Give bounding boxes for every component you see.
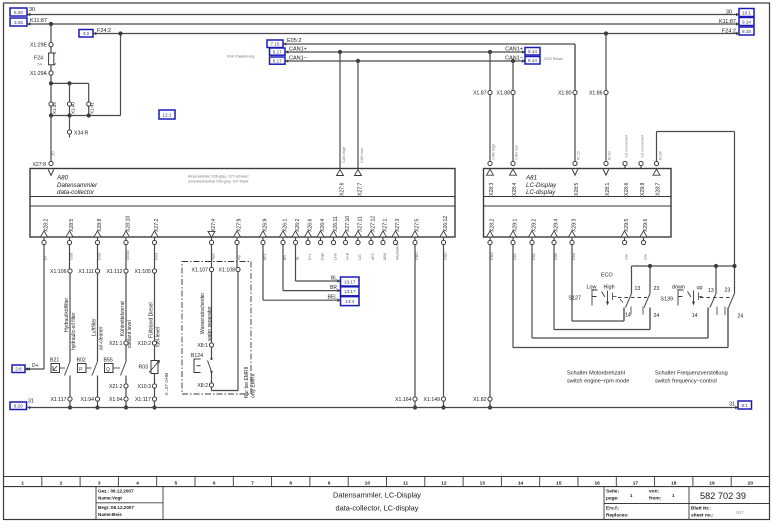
- svg-text:D+: D+: [44, 255, 48, 260]
- svg-text:B21: B21: [50, 358, 59, 364]
- svg-text:12:1: 12:1: [163, 112, 172, 117]
- svg-text:Q: Q: [106, 367, 110, 373]
- svg-text:3:26: 3:26: [14, 20, 23, 25]
- svg-text:0...67 OHM: 0...67 OHM: [164, 372, 169, 395]
- svg-text:1: 1: [21, 480, 24, 486]
- sheet ref 8.15 (F24:2 right): [736, 27, 754, 35]
- wire water separator: [200, 272, 213, 343]
- svg-text:Schalter Motordrehzahl: Schalter Motordrehzahl: [567, 371, 625, 377]
- svg-text:X1.111: X1.111: [78, 269, 94, 275]
- svg-text:X28:8: X28:8: [97, 219, 103, 232]
- svg-text:X27:4: X27:4: [211, 219, 217, 232]
- svg-text:6:20: 6:20: [14, 10, 23, 15]
- svg-text:X26:4: X26:4: [320, 219, 326, 232]
- svg-text:X26:9: X26:9: [263, 219, 269, 232]
- svg-text:D8H: D8H: [554, 252, 558, 260]
- floating sheet ref 12:1: [159, 110, 175, 119]
- svg-text:8: 8: [289, 480, 292, 486]
- A80 pin X26:1: [280, 219, 289, 260]
- A80 pin X26:6: [305, 219, 314, 260]
- sheet ref 6.17 (CAN1+ left): [270, 48, 289, 55]
- svg-text:BR: BR: [283, 255, 287, 260]
- svg-text:Name:Vogt: Name:Vogt: [98, 496, 122, 501]
- svg-text:X1.87: X1.87: [473, 91, 487, 97]
- svg-text:13: 13: [708, 288, 714, 294]
- A80 pin X26:9: [260, 219, 269, 260]
- A81 pin X28:2: [487, 219, 496, 260]
- svg-text:X28:5: X28:5: [574, 183, 580, 196]
- svg-text:D+: D+: [32, 363, 39, 369]
- svg-text:13:17: 13:17: [344, 279, 356, 284]
- pin X28:6 not connected: [623, 135, 630, 196]
- svg-text:9.14: 9.14: [528, 58, 537, 63]
- svg-text:von:: von:: [649, 490, 660, 495]
- wire X28:10 branch (coolant level): [120, 245, 133, 348]
- svg-text:8.15: 8.15: [742, 29, 751, 34]
- svg-text:007: 007: [736, 510, 744, 515]
- svg-text:Replaces:: Replaces:: [606, 513, 629, 519]
- svg-text:X1:94: X1:94: [80, 397, 94, 403]
- svg-text:X27:9: X27:9: [237, 219, 243, 232]
- svg-text:sheet no.:: sheet no.:: [691, 513, 714, 519]
- svg-text:CAN1+: CAN1+: [505, 47, 523, 53]
- svg-text:up: up: [697, 285, 703, 291]
- svg-text:14: 14: [692, 313, 698, 319]
- svg-text:data-collector, LC-display: data-collector, LC-display: [336, 504, 419, 513]
- svg-text:Wasserabscheider: Wasserabscheider: [200, 292, 206, 334]
- svg-text:X1:112: X1:112: [106, 269, 122, 275]
- fuse F24 5A: [34, 47, 56, 71]
- svg-text:Begr.:06.12.2007: Begr.:06.12.2007: [98, 505, 134, 510]
- A80 pin X28:5: [66, 219, 75, 260]
- A80 pin X27:2: [151, 219, 160, 260]
- svg-text:6: 6: [213, 480, 216, 486]
- svg-text:CAN1+: CAN1+: [289, 47, 307, 53]
- svg-text:23: 23: [654, 286, 660, 292]
- svg-text:BEL: BEL: [263, 253, 267, 260]
- svg-text:B55: B55: [104, 358, 113, 364]
- svg-text:F24: F24: [34, 56, 43, 62]
- connector X1:94 (air cleaner): [80, 397, 99, 410]
- svg-text:Blatt Nr.:: Blatt Nr.:: [691, 506, 711, 512]
- pin X28:1 top (arrow in): [603, 161, 611, 196]
- svg-text:AB8: AB8: [383, 253, 387, 260]
- svg-text:F24:2: F24:2: [722, 28, 736, 34]
- svg-text:High: High: [604, 285, 615, 291]
- svg-text:K11:87: K11:87: [719, 19, 736, 25]
- svg-text:X27:1: X27:1: [383, 219, 389, 232]
- A81 pin X29:3: [569, 219, 578, 260]
- A80 pin X27:1: [380, 219, 389, 260]
- svg-text:CAN high: CAN high: [342, 147, 346, 163]
- connector X1:29E: [30, 43, 53, 49]
- svg-text:X10:2: X10:2: [137, 341, 151, 347]
- connector X1.88: [496, 90, 515, 96]
- connector X21:1: [109, 341, 128, 362]
- svg-text:15: 15: [556, 480, 562, 486]
- connector X1:29A: [30, 71, 53, 77]
- wire X28:8 branch (air cleaner): [97, 245, 99, 269]
- wire X26:12 to X1.149: [443, 245, 445, 397]
- svg-text:17: 17: [633, 480, 639, 486]
- svg-text:12: 12: [441, 480, 447, 486]
- svg-text:ECO: ECO: [601, 273, 613, 279]
- svg-text:31: 31: [729, 401, 735, 407]
- svg-text:X27:5: X27:5: [415, 219, 421, 232]
- svg-text:X28:6: X28:6: [624, 183, 630, 196]
- svg-text:switch engine−rpm mode: switch engine−rpm mode: [567, 379, 629, 385]
- svg-text:X27:12: X27:12: [371, 216, 377, 232]
- svg-text:BL: BL: [331, 275, 337, 281]
- svg-text:13: 13: [635, 286, 641, 292]
- svg-text:X1:80: X1:80: [558, 91, 572, 97]
- sheet ref 6:20 (31 left): [10, 402, 30, 410]
- vacuum switch B02: [77, 358, 98, 376]
- sheet ref 7.16 (E05:2 left): [267, 40, 286, 48]
- svg-text:K11:87: K11:87: [30, 18, 47, 24]
- connector X1:117: [50, 397, 72, 410]
- svg-text:6A2A6A40: 6A2A6A40: [396, 243, 400, 260]
- svg-text:23e: 23e: [644, 254, 648, 260]
- connector X1.164: [395, 397, 417, 410]
- svg-text:20: 20: [748, 480, 754, 486]
- svg-text:6.17: 6.17: [273, 49, 282, 54]
- caption switch frequency-control: [655, 371, 728, 385]
- svg-text:4: 4: [136, 480, 139, 486]
- connector X1.82: [473, 397, 492, 410]
- wire X29:1 to S139 contact 24: [513, 245, 728, 348]
- switch supply bus: [632, 264, 737, 268]
- svg-text:LIG: LIG: [358, 254, 362, 260]
- svg-text:Kühlmittelvorrat: Kühlmittelvorrat: [120, 301, 126, 336]
- svg-text:LH8: LH8: [334, 253, 338, 260]
- svg-text:X29:2: X29:2: [532, 219, 538, 232]
- A80 pin X27:12: [368, 216, 377, 260]
- svg-text:not connected: not connected: [640, 135, 644, 158]
- sheet ref 13:17 (BL): [337, 277, 359, 286]
- wire CAN high into A80 X27:6: [337, 52, 346, 196]
- svg-text:X21:2: X21:2: [109, 384, 123, 390]
- S139 contact 13-14: [692, 266, 725, 338]
- wire Kl.30 to X1:86: [604, 31, 608, 90]
- svg-text:X21:1: X21:1: [109, 341, 123, 347]
- svg-text:Kl.30: Kl.30: [608, 151, 612, 160]
- connector pin X28:4 top: [510, 161, 519, 196]
- sheet ref 13:17 (BR): [337, 287, 359, 296]
- connector pin X28:3 top: [487, 161, 496, 196]
- S127 contact 23-24: [644, 266, 659, 330]
- svg-text:13: 13: [480, 480, 486, 486]
- svg-text:24: 24: [654, 313, 660, 319]
- svg-text:X29:6: X29:6: [643, 219, 649, 232]
- svg-text:X28:5: X28:5: [69, 219, 75, 232]
- wire X29:2 to S139 contact 14: [532, 245, 708, 338]
- svg-text:page:: page:: [606, 497, 619, 502]
- sheet ref 10.1 (wire 30 right): [736, 9, 754, 17]
- svg-text:X27:2: X27:2: [154, 219, 160, 232]
- connector X1:112: [106, 269, 128, 275]
- switch S127 engine rpm mode: [568, 273, 647, 306]
- connector X1:117 (fuel): [135, 397, 157, 410]
- sheet ref 13:4 (BEL): [337, 297, 359, 306]
- svg-text:X29:5: X29:5: [624, 219, 630, 232]
- svg-text:S139: S139: [660, 297, 673, 303]
- pressure switch B21: [50, 358, 70, 376]
- svg-text:AFC: AFC: [371, 252, 375, 260]
- svg-text:DqH: DqH: [321, 252, 325, 260]
- wire X28:2 to X1.82: [489, 245, 491, 397]
- svg-text:BL: BL: [296, 256, 300, 260]
- svg-text:13:4: 13:4: [345, 299, 354, 304]
- svg-text:GND: GND: [415, 252, 419, 260]
- sheet ref 9.14 (CAN1+ right): [522, 48, 540, 56]
- svg-text:6.17: 6.17: [273, 58, 282, 63]
- svg-text:DG6: DG6: [70, 253, 74, 260]
- svg-text:D84: D84: [513, 253, 517, 260]
- svg-text:9.14: 9.14: [528, 49, 537, 54]
- svg-text:LC-Display: LC-Display: [526, 182, 557, 189]
- wire BL from X26:2: [296, 245, 341, 282]
- connector X21:2: [109, 376, 128, 397]
- svg-text:5A: 5A: [37, 63, 42, 67]
- svg-text:Füllstand Diesel: Füllstand Diesel: [149, 302, 155, 338]
- svg-text:D+1: D+1: [308, 253, 312, 260]
- A80 pin X26:12: [440, 216, 449, 260]
- svg-text:X1:105: X1:105: [135, 269, 152, 275]
- svg-text:Name:Beis: Name:Beis: [98, 512, 122, 517]
- svg-text:X26:6: X26:6: [308, 219, 314, 232]
- svg-text:D8d: D8d: [572, 253, 576, 260]
- svg-text:X27:6: X27:6: [339, 183, 345, 196]
- sheet ref 3:26 (K11:87 left): [10, 18, 30, 26]
- svg-text:D82: D82: [532, 253, 536, 260]
- wire X27:2 branch (fuel level): [149, 245, 162, 347]
- svg-text:water separator: water separator: [207, 306, 213, 341]
- A80 pin X26:2: [292, 219, 301, 260]
- svg-text:Seite:: Seite:: [606, 489, 619, 495]
- svg-text:16: 16: [594, 480, 600, 486]
- wire X27:9 to X1:108: [236, 245, 238, 268]
- svg-text:Nur bei EMRII: Nur bei EMRII: [244, 367, 250, 398]
- svg-text:CAN low: CAN low: [515, 145, 519, 160]
- svg-text:X27:3: X27:3: [395, 219, 401, 232]
- A80 pin X27:4: [208, 219, 217, 260]
- svg-text:BEL: BEL: [328, 295, 338, 301]
- svg-text:X1.82: X1.82: [473, 397, 487, 403]
- caption switch engine-rpm mode: [567, 371, 629, 385]
- svg-text:DG1: DG1: [155, 253, 159, 260]
- svg-text:X8:1: X8:1: [197, 343, 208, 349]
- svg-text:X1:86: X1:86: [589, 91, 603, 97]
- connector X1.87: [473, 90, 492, 96]
- wire E05:2: [284, 38, 576, 90]
- wire 30 (battery+) top rail: [28, 7, 740, 16]
- svg-text:CAN1−: CAN1−: [289, 56, 307, 62]
- level switch B55: [104, 358, 127, 376]
- connector X1:107: [192, 267, 214, 273]
- wire rejoin to F24:2 net: [49, 31, 123, 117]
- wire X29:3 to S127 contact 14: [572, 245, 624, 321]
- connector X27:8: [32, 161, 53, 175]
- svg-text:B02: B02: [77, 358, 86, 364]
- sheet ref 6:20 (wire 30 left): [10, 8, 30, 16]
- svg-text:X1:39: X1:39: [52, 102, 57, 114]
- svg-text:X29:4: X29:4: [554, 219, 560, 232]
- sheet ref 8:1 (31 right): [735, 401, 751, 409]
- sheet ref 4:2 (F24:2 left): [79, 30, 96, 38]
- connector X1:108: [219, 267, 241, 390]
- svg-text:S127: S127: [568, 296, 581, 302]
- A80 pin X27:5: [412, 219, 421, 260]
- S127 contact 13-14: [624, 266, 643, 321]
- variable resistor R03 0..67 OHM: [138, 361, 169, 396]
- svg-text:X29:1: X29:1: [513, 219, 519, 232]
- svg-text:X28:10: X28:10: [126, 216, 132, 232]
- wire CAN1- rail: [286, 56, 526, 64]
- connector X1:39: [49, 102, 57, 114]
- sheet ref 2:8 (D+): [12, 365, 30, 373]
- ECU A80 Datensammler data-collector: [30, 169, 455, 238]
- svg-text:F24:2: F24:2: [97, 28, 111, 34]
- svg-text:X27:10: X27:10: [345, 216, 351, 232]
- svg-text:E05:2: E05:2: [287, 38, 301, 44]
- svg-text:Ers.f.:: Ers.f.:: [606, 506, 620, 512]
- svg-text:A81: A81: [525, 175, 537, 182]
- svg-text:X1:117: X1:117: [135, 397, 151, 403]
- svg-text:582 702 39: 582 702 39: [700, 491, 746, 501]
- A81 pin X29:2: [529, 219, 538, 260]
- svg-text:X28:1: X28:1: [605, 183, 611, 196]
- connector X10:2: [137, 341, 156, 361]
- A80 pin X27:10: [342, 216, 351, 260]
- svg-text:LC-display: LC-display: [526, 189, 556, 196]
- svg-text:U+B: U+B: [346, 252, 350, 260]
- wire X27:5 to X1.164: [414, 245, 416, 397]
- svg-text:14: 14: [625, 313, 631, 319]
- svg-text:switch frequency−control: switch frequency−control: [655, 379, 717, 385]
- svg-text:X28:2: X28:2: [44, 219, 50, 232]
- wire D+ from X28:2 to ref 2:8: [28, 245, 45, 369]
- A81 pin X29:5: [621, 219, 630, 260]
- svg-text:X1:40: X1:40: [71, 102, 76, 114]
- svg-text:Tast: Tast: [212, 253, 216, 260]
- wire F24:2 rail: [94, 28, 740, 34]
- A80 pin X28:10: [123, 216, 132, 260]
- svg-text:X26:2: X26:2: [295, 219, 301, 232]
- svg-text:DG6: DG6: [98, 253, 102, 260]
- svg-text:Luftfilter: Luftfilter: [92, 318, 98, 336]
- connector X8:2: [197, 372, 213, 389]
- svg-text:Datensammler: Datensammler: [57, 182, 98, 189]
- pin X29:8 not connected: [639, 135, 646, 196]
- wire Kl.15 to X1:80: [574, 44, 576, 90]
- svg-text:X28:2: X28:2: [490, 219, 496, 232]
- svg-text:Gez.: 06.12.2007: Gez.: 06.12.2007: [98, 489, 134, 494]
- pin X28:5 top (arrow in): [572, 161, 580, 196]
- A81 pin X29:6: [640, 219, 649, 260]
- title block: [4, 477, 770, 520]
- svg-text:unverwechselbar X26-grey, X27-: unverwechselbar X26-grey, X27-black: [188, 180, 249, 184]
- svg-text:11: 11: [403, 480, 408, 486]
- wire fuse output split: [49, 75, 89, 102]
- wire 30 into A80 X27:8: [51, 116, 56, 162]
- connector X1:111: [78, 269, 99, 275]
- sheet ref 9.14 (CAN1- right): [522, 57, 563, 65]
- svg-text:7.16: 7.16: [271, 42, 280, 47]
- sheet ref 6.17 (CAN1- left): [270, 57, 289, 64]
- svg-text:DGS Relais: DGS Relais: [544, 57, 563, 61]
- svg-text:R03: R03: [138, 365, 148, 371]
- svg-text:GND: GND: [444, 252, 448, 260]
- svg-text:2:8: 2:8: [15, 367, 22, 372]
- svg-text:air-cleaner: air-cleaner: [99, 326, 105, 350]
- connector X1:86: [589, 90, 608, 96]
- svg-text:Datensammler, LC-Display: Datensammler, LC-Display: [333, 491, 421, 500]
- sheet ref 9.14 (K11:87 right): [736, 18, 754, 26]
- A81 pin X29:4: [551, 219, 560, 260]
- svg-text:6:20: 6:20: [14, 404, 23, 409]
- switch S139 frequency control: [660, 285, 731, 306]
- svg-text:Schalter Frequenzverstellung: Schalter Frequenzverstellung: [655, 371, 728, 377]
- wire CAN high to X1.87: [489, 52, 491, 90]
- svg-text:5: 5: [175, 480, 178, 486]
- svg-text:9: 9: [328, 480, 331, 486]
- connector X34:R: [67, 116, 88, 138]
- svg-text:sig: sig: [237, 255, 241, 260]
- svg-text:X1:29E: X1:29E: [30, 43, 48, 49]
- A80 pin X27:3: [392, 219, 401, 260]
- svg-text:X1:29A: X1:29A: [30, 71, 48, 77]
- svg-text:Kl.15: Kl.15: [577, 151, 581, 160]
- A80 pin X26:4: [317, 219, 326, 260]
- svg-text:24: 24: [738, 314, 744, 320]
- svg-text:DG1d: DG1d: [126, 251, 130, 260]
- svg-text:X27:11: X27:11: [358, 216, 364, 232]
- A80 pin X26:11: [330, 216, 339, 260]
- connector X1:41: [87, 102, 95, 114]
- svg-text:18: 18: [671, 480, 677, 486]
- A81 pin X29:1: [510, 219, 519, 260]
- svg-text:Hydraulikölfilter: Hydraulikölfilter: [64, 297, 70, 332]
- svg-text:X1:108: X1:108: [219, 268, 236, 274]
- svg-text:14: 14: [518, 480, 524, 486]
- svg-text:X27:7: X27:7: [357, 183, 363, 196]
- svg-text:7: 7: [251, 480, 254, 486]
- svg-text:10.1: 10.1: [742, 10, 751, 15]
- svg-text:X8:2: X8:2: [197, 383, 208, 389]
- connector X1:40: [67, 102, 75, 114]
- pin X28:7 top: [653, 161, 662, 196]
- connector X8:1: [197, 343, 213, 358]
- svg-text:4:2: 4:2: [83, 31, 90, 36]
- svg-text:X28:4: X28:4: [512, 183, 518, 196]
- svg-text:not connected: not connected: [624, 135, 628, 158]
- wire CAN1+ rail: [286, 47, 526, 55]
- svg-text:X26:11: X26:11: [333, 216, 339, 232]
- svg-text:hydraulic-oil filter: hydraulic-oil filter: [71, 312, 77, 350]
- svg-text:X1:106: X1:106: [50, 269, 67, 275]
- A80 pin X27:9: [234, 219, 243, 260]
- A80 pin X27:11: [355, 216, 364, 260]
- svg-text:B124: B124: [191, 353, 203, 359]
- A80 pin X28:2: [41, 219, 50, 260]
- wire CAN low into A80 X27:7: [355, 61, 364, 196]
- svg-text:X29:8: X29:8: [640, 183, 646, 196]
- float switch B124: [191, 353, 213, 373]
- wire K11:87 drop to fuse: [49, 22, 53, 43]
- svg-text:X1.88: X1.88: [496, 91, 510, 97]
- svg-text:data-collector: data-collector: [57, 189, 95, 196]
